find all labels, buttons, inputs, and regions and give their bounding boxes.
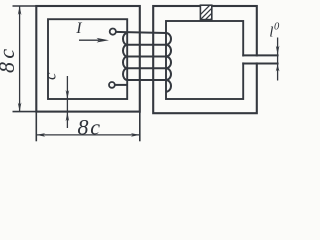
arrow right [131,133,140,137]
air gap upper face [242,54,278,56]
left arc 2 [123,45,127,57]
left dimension 8c [13,6,38,112]
arrow up to outer edge [66,112,70,121]
bottom dimension 8c [36,112,140,141]
left core outer boundary [36,6,140,112]
extension line left [35,112,37,141]
wire turn 3 [127,56,166,58]
svg-text:0: 0 [274,21,280,32]
bottom terminal [109,82,115,88]
left arc 1 [123,33,127,45]
extension line bottom [13,111,38,113]
air gap dimension l0 [276,38,280,81]
current arrow [79,38,109,43]
right arc 3 [166,57,171,69]
right arc 5 [166,80,171,92]
extension line top [13,5,38,7]
arrow down to inner edge [66,90,70,99]
air gap cutout in right limb [242,57,280,63]
arrow down to upper face [276,46,280,55]
right arc 4 [166,68,171,80]
right core inner window [166,21,243,99]
wire turn 1 [116,32,166,33]
coil winding [115,32,171,92]
air gap lower face [242,63,278,65]
svg-text:c: c [41,72,60,80]
arrow up to lower face [276,65,280,72]
arrow down [18,103,22,112]
hatched section in top limb of right core [191,4,226,24]
svg-text:8c: 8c [78,115,102,140]
extension line right [139,112,141,141]
wire turn 5 [127,79,166,81]
arrow up [18,6,22,15]
left core inner window [48,19,127,99]
right arc 2 [166,45,171,57]
svg-text:l: l [269,24,273,40]
left arc 4 [123,68,127,80]
dimension shaft [19,6,21,112]
top terminal [110,29,116,35]
svg-text:8c: 8c [0,45,19,73]
dimension c (limb width) [66,76,70,128]
bottom terminal wire [115,84,128,86]
right core outer boundary [153,6,257,113]
wire turn 4 [127,67,166,69]
dimension shaft [36,134,140,136]
arrow left [36,133,45,137]
right arc 1 [166,33,171,45]
svg-text:I: I [75,20,82,37]
left arc 3 [123,57,127,69]
wire turn 2 [127,44,166,46]
